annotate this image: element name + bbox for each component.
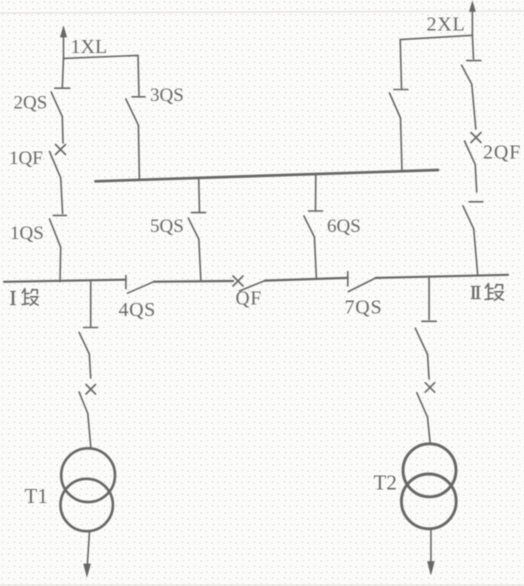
svg-text:1QS: 1QS — [10, 223, 44, 244]
svg-text:1XL: 1XL — [71, 36, 108, 58]
glyph duan (Chinese) — [485, 284, 503, 301]
svg-text:2XL: 2XL — [427, 14, 466, 36]
upper transfer bus — [96, 170, 439, 181]
wire 6QS from upper bus — [315, 174, 317, 211]
wire 1QF to 1QS — [61, 178, 63, 214]
svg-text:1QF: 1QF — [9, 148, 43, 169]
wire to 2QF — [472, 84, 476, 129]
wire breaker to T1 — [88, 414, 91, 449]
circuit breaker QF (bus tie) — [233, 276, 265, 291]
transformer T1 — [60, 448, 115, 531]
svg-text:5QS: 5QS — [150, 216, 184, 237]
disconnector 2QS — [51, 88, 70, 117]
svg-text:4QS: 4QS — [119, 299, 156, 321]
wire 6QS to bus segment — [314, 237, 316, 279]
disconnector 3QS — [126, 97, 145, 125]
transformer T2 — [401, 444, 456, 529]
feeder arrow 2XL — [469, 2, 475, 36]
wire 5QS from upper bus — [198, 178, 201, 212]
wire 1XL horizontal — [64, 55, 139, 58]
disconnector 2XL left branch — [390, 90, 408, 119]
svg-text:2QF: 2QF — [483, 142, 521, 164]
wire 1QS to bus I — [59, 247, 62, 281]
circuit breaker 2QF — [465, 133, 482, 165]
glyph duan (Chinese) — [22, 289, 38, 306]
disconnector T2 (bus side) — [415, 321, 436, 354]
circuit breaker T1 — [79, 385, 95, 414]
disconnector T1 (bus side) — [79, 328, 97, 355]
wire 2XL right drop — [472, 35, 473, 59]
svg-text:T1: T1 — [25, 484, 48, 508]
wire to T2 breaker — [428, 354, 430, 379]
svg-text:7QS: 7QS — [345, 297, 383, 319]
busbar tie segment QF-7QS — [265, 278, 347, 281]
wire to T1 breaker — [89, 354, 90, 378]
wire 2QF to lower disconnector — [475, 164, 477, 192]
svg-text:6QS: 6QS — [327, 216, 361, 237]
svg-text:T2: T2 — [374, 471, 397, 495]
label section II — [470, 282, 503, 304]
wire to bus II — [474, 229, 478, 275]
svg-text:II: II — [470, 282, 481, 304]
feeder arrow 1XL — [60, 27, 66, 59]
wire 2XL horizontal — [400, 35, 472, 39]
load arrow T1 — [84, 532, 91, 577]
busbar tie segment 4QS-QF — [154, 280, 233, 283]
disconnector 5QS — [188, 213, 205, 240]
busbar section I — [4, 280, 125, 282]
svg-text:3QS: 3QS — [150, 85, 184, 106]
wire 1XL left drop — [62, 58, 63, 87]
svg-text:QF: QF — [236, 289, 263, 310]
label section I — [10, 286, 39, 310]
wire 3QS to upper bus — [138, 125, 139, 180]
disconnector 6QS — [304, 211, 323, 237]
load arrow T2 — [428, 529, 435, 575]
wire 2XL left drop — [400, 40, 401, 89]
wire T2 drop from bus II — [428, 276, 430, 319]
wire T1 drop from bus I — [90, 282, 92, 327]
svg-text:2QS: 2QS — [14, 93, 48, 114]
busbar section II — [376, 275, 508, 278]
scan artifact line (decorative) — [0, 11, 524, 13]
wire 5QS to bus I — [199, 239, 201, 281]
circuit breaker 1QF — [50, 145, 66, 178]
disconnector 7QS (bus tie) — [348, 272, 376, 292]
wire 1XL right drop — [138, 55, 139, 95]
svg-text:I: I — [10, 286, 17, 310]
wire breaker to T2 — [428, 417, 431, 443]
wire 2QS to 1QF — [61, 117, 64, 143]
disconnector 4QS (bus tie) — [126, 276, 154, 294]
disconnector 1QS — [50, 215, 67, 247]
wire to upper bus — [401, 118, 403, 172]
disconnector right (bus side) — [463, 202, 483, 229]
circuit breaker T2 — [417, 383, 435, 418]
disconnector top-right (line side) — [462, 61, 481, 85]
